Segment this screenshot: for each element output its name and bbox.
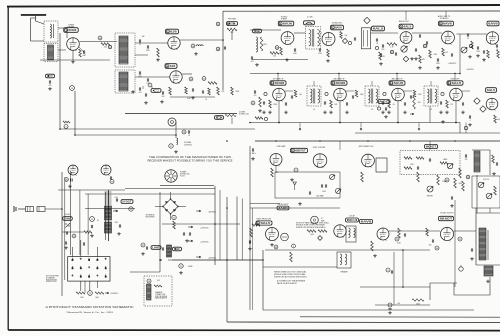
svg-text:6AL5: 6AL5 — [452, 81, 462, 85]
svg-text:470K: 470K — [434, 54, 438, 56]
svg-text:470K: 470K — [459, 183, 463, 185]
svg-text:560: 560 — [273, 55, 276, 57]
svg-text:.01: .01 — [371, 109, 373, 111]
svg-text:6K6GT: 6K6GT — [440, 217, 453, 221]
svg-text:.001: .001 — [299, 94, 302, 96]
svg-text:THE COOPERATION OF THE MANUFAC: THE COOPERATION OF THE MANUFACTURER OF T… — [149, 155, 231, 159]
svg-text:SW: SW — [64, 217, 71, 221]
svg-text:ON-OFF: ON-OFF — [64, 214, 70, 216]
svg-text:F: F — [47, 74, 54, 78]
svg-text:+265VDC: +265VDC — [200, 228, 209, 230]
svg-text:.001: .001 — [138, 92, 141, 94]
svg-text:VALUE OF APPLICATION: VALUE OF APPLICATION — [277, 282, 297, 285]
svg-text:JACK: JACK — [278, 206, 288, 210]
svg-text:120K: 120K — [418, 94, 422, 96]
svg-text:.05: .05 — [496, 49, 498, 51]
svg-text:FOR THE MODEL: FOR THE MODEL — [155, 296, 167, 298]
svg-text:6J6: 6J6 — [170, 64, 176, 68]
svg-text:1500: 1500 — [476, 51, 480, 53]
svg-text:+135VDC: +135VDC — [200, 241, 209, 243]
svg-text:6AL5: 6AL5 — [373, 27, 384, 31]
svg-text:4.5 MC: 4.5 MC — [307, 17, 313, 19]
svg-text:+105VDC: +105VDC — [448, 63, 457, 65]
svg-text:6AL5: 6AL5 — [487, 88, 496, 92]
svg-text:6CB6: 6CB6 — [68, 28, 76, 32]
svg-text:.01: .01 — [205, 99, 207, 101]
svg-text:150: 150 — [465, 159, 468, 161]
svg-text:3.9K: 3.9K — [418, 102, 421, 104]
svg-text:5Y3GT: 5Y3GT — [122, 200, 132, 204]
svg-text:6J6: 6J6 — [170, 30, 177, 34]
svg-text:FM TRAP: FM TRAP — [228, 18, 237, 21]
svg-text:1 MEG: 1 MEG — [443, 159, 449, 161]
svg-text:.01: .01 — [313, 109, 315, 111]
svg-text:6AU6: 6AU6 — [394, 81, 404, 85]
svg-text:700V: 700V — [115, 222, 119, 224]
svg-text:CONNECTION: CONNECTION — [155, 294, 165, 296]
svg-text:150: 150 — [445, 52, 448, 54]
svg-text:RECTIFIER: RECTIFIER — [146, 217, 156, 219]
svg-text:.0047: .0047 — [496, 119, 500, 121]
svg-text:5600: 5600 — [80, 297, 84, 299]
svg-text:.1: .1 — [469, 120, 470, 122]
svg-text:SYNC CLIPPER: SYNC CLIPPER — [313, 147, 326, 149]
svg-text:6CB6: 6CB6 — [336, 81, 346, 85]
svg-text:SOUND DISC: SOUND DISC — [332, 22, 343, 24]
svg-text:6AV6: 6AV6 — [361, 220, 372, 224]
svg-text:6AL5: 6AL5 — [261, 221, 271, 225]
svg-text:820: 820 — [231, 32, 234, 34]
svg-text:.05: .05 — [392, 104, 394, 106]
svg-text:.005: .005 — [428, 245, 431, 247]
svg-text:FOCUS: FOCUS — [483, 179, 489, 181]
svg-text:.0047: .0047 — [82, 55, 86, 57]
svg-text:5600: 5600 — [360, 94, 364, 96]
svg-text:SYNC AMP: SYNC AMP — [277, 145, 287, 148]
svg-text:SUBSTITUTE MODELS SEE DETAILS: SUBSTITUTE MODELS SEE DETAILS — [296, 226, 326, 229]
svg-text:E: E — [174, 247, 181, 251]
svg-text:5600: 5600 — [416, 304, 420, 306]
svg-text:.01: .01 — [139, 44, 141, 46]
svg-text:820: 820 — [382, 49, 385, 51]
svg-text:LINE: LINE — [152, 246, 160, 250]
svg-text:270: 270 — [450, 104, 453, 106]
svg-text:+250VDC: +250VDC — [110, 293, 119, 295]
svg-text:5600: 5600 — [95, 297, 99, 299]
svg-text:BOTTOM SHOWN: BOTTOM SHOWN — [46, 276, 59, 278]
svg-text:VERT SWEEP OSC: VERT SWEEP OSC — [358, 146, 374, 148]
svg-text:1ST AUDIO: 1ST AUDIO — [440, 17, 449, 20]
svg-text:.001: .001 — [250, 61, 253, 63]
svg-text:6AU6: 6AU6 — [335, 26, 342, 30]
svg-text:RECEIVER MAKES IT POSSIBLE TO: RECEIVER MAKES IT POSSIBLE TO BRING YOU … — [148, 158, 233, 162]
svg-text:.01: .01 — [467, 38, 469, 40]
svg-text:6K6GT: 6K6GT — [426, 145, 437, 149]
svg-text:560: 560 — [162, 96, 165, 98]
svg-text:CONTROL: CONTROL — [184, 144, 192, 146]
svg-text:68: 68 — [84, 53, 86, 55]
svg-text:+265VDC: +265VDC — [208, 257, 217, 259]
svg-text:6AL5: 6AL5 — [404, 25, 412, 29]
svg-text:4.5 MHZ: 4.5 MHZ — [239, 112, 245, 114]
svg-text:6.3V: 6.3V — [157, 280, 160, 282]
svg-text:270: 270 — [254, 95, 257, 97]
svg-text:AUDIO DET: AUDIO DET — [399, 20, 410, 23]
svg-text:A PHOTOFACT STANDARD NOTATION: A PHOTOFACT STANDARD NOTATION SCHEMATIC — [46, 306, 134, 309]
svg-text:.1: .1 — [426, 46, 427, 48]
svg-text:AGC: AGC — [379, 100, 390, 104]
svg-text:1500: 1500 — [322, 191, 326, 193]
svg-text:SUBSTITUTE ACCORDING SEE MODE: SUBSTITUTE ACCORDING SEE MODELS — [274, 276, 308, 279]
svg-text:5600: 5600 — [310, 234, 314, 236]
svg-text:+380VDC: +380VDC — [208, 211, 217, 213]
svg-text:6CB6: 6CB6 — [275, 81, 285, 85]
svg-text:MODELS ONLY: MODELS ONLY — [46, 281, 57, 283]
svg-text:MMF: MMF — [321, 221, 324, 223]
svg-text:1 MEG: 1 MEG — [251, 153, 257, 155]
svg-text:POSITION FOR: POSITION FOR — [46, 279, 58, 281]
svg-text:6C4: 6C4 — [347, 218, 358, 222]
svg-text:1500 MMF: 1500 MMF — [316, 196, 324, 198]
svg-text:SOUND COIL: SOUND COIL — [239, 114, 249, 116]
svg-text:47: 47 — [321, 218, 323, 220]
svg-text:6AV6: 6AV6 — [488, 22, 498, 26]
svg-text:470K: 470K — [410, 164, 414, 166]
svg-text:HEIGHT: HEIGHT — [427, 196, 433, 198]
svg-text:PLUG: PLUG — [180, 176, 185, 178]
svg-text:40: 40 — [97, 220, 99, 222]
svg-text:IF AMP: IF AMP — [281, 18, 288, 21]
svg-text:©Howard W. Sams & Co., Inc. 19: ©Howard W. Sams & Co., Inc. 1951 — [66, 311, 114, 314]
svg-text:.05: .05 — [376, 43, 378, 45]
svg-text:6SN7GT: 6SN7GT — [295, 149, 306, 153]
svg-text:SOUND OUTPUT: SOUND OUTPUT — [440, 213, 454, 215]
svg-text:+105VDC: +105VDC — [466, 69, 475, 71]
svg-text:560: 560 — [104, 46, 107, 48]
svg-text:6AV6: 6AV6 — [443, 22, 452, 26]
svg-text:.01: .01 — [188, 135, 190, 137]
svg-text:6AU6: 6AU6 — [283, 22, 292, 26]
